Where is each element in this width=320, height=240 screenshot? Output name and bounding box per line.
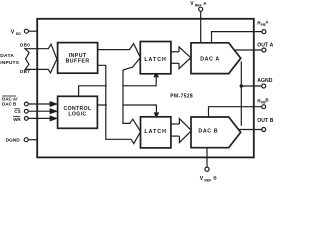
latch A box — [140, 42, 171, 74]
wire latch B to dac B body — [171, 123, 179, 125]
label VDD — [11, 30, 22, 36]
svg-text:LOGIC: LOGIC — [68, 111, 86, 117]
wire bus input-buffer to latch A — [97, 49, 130, 51]
label DAC A / DAC B — [2, 96, 18, 107]
wire arrowhead into latch B (solid) — [155, 113, 159, 117]
wire bus outer boundary to latch B — [97, 65, 141, 143]
terminal circle agnd — [262, 84, 266, 88]
svg-text:DATA: DATA — [0, 53, 14, 59]
wire agnd tap — [241, 85, 261, 87]
vdd terminal circle — [24, 29, 28, 33]
terminal circle out B — [262, 128, 266, 132]
svg-text:REF: REF — [204, 178, 211, 182]
latch B box — [141, 117, 171, 148]
svg-text:OUT A: OUT A — [257, 42, 273, 48]
label RFB A — [257, 19, 269, 26]
wire rfb A — [212, 32, 262, 43]
svg-text:A: A — [203, 1, 207, 6]
wire rfb B — [209, 107, 262, 117]
wire WR input — [28, 117, 50, 119]
svg-text:AGND: AGND — [257, 78, 273, 84]
svg-text:DAC A: DAC A — [200, 56, 220, 62]
dac A shape — [191, 43, 241, 74]
wire dac select input — [28, 103, 50, 105]
terminal circle rfb B — [262, 105, 266, 109]
svg-text:V: V — [200, 176, 204, 182]
label RFB B — [257, 97, 268, 104]
svg-text:WR: WR — [13, 117, 21, 122]
terminal circle vref B — [205, 167, 209, 171]
svg-text:A: A — [265, 19, 269, 24]
svg-text:INPUTS: INPUTS — [0, 60, 19, 66]
svg-text:B: B — [213, 176, 217, 181]
label WR — [13, 117, 21, 122]
arrowhead latch A to dac A — [179, 47, 191, 69]
wire dgnd — [28, 139, 38, 141]
svg-text:LATCH: LATCH — [144, 57, 167, 63]
svg-text:DAC B: DAC B — [2, 102, 17, 107]
svg-text:PM-7528: PM-7528 — [170, 93, 193, 99]
label control logic — [64, 106, 92, 118]
wire vref A — [200, 11, 202, 43]
svg-text:LATCH: LATCH — [144, 129, 167, 135]
svg-text:REF: REF — [195, 4, 202, 8]
svg-text:V: V — [190, 1, 194, 7]
dac B shape — [191, 117, 241, 148]
wire agnd rail — [240, 61, 242, 126]
label input buffer — [66, 53, 90, 65]
data inputs bus arrow — [25, 44, 57, 73]
svg-text:DAC B: DAC B — [198, 129, 218, 135]
junction dot agnd — [240, 84, 243, 87]
vdd terminal wire — [28, 30, 38, 32]
terminal circle dgnd — [24, 138, 28, 142]
terminal circle rfb A — [262, 30, 266, 34]
label CS — [14, 109, 20, 114]
wire CS input — [28, 110, 50, 112]
terminal circle CS — [24, 109, 28, 113]
node bus occluder — [107, 66, 123, 139]
arrowhead dac select — [50, 102, 56, 106]
arrowhead latch B to dac B — [179, 119, 191, 143]
wire latch A input arrowhead — [123, 44, 140, 70]
wire out A — [235, 49, 262, 51]
wire control logic to latch B — [97, 105, 156, 114]
input buffer box — [58, 43, 98, 74]
control logic box — [58, 96, 98, 128]
terminal circle vref A — [199, 7, 203, 11]
arrowhead CS — [50, 109, 56, 113]
terminal circle dac select — [24, 102, 28, 106]
svg-text:DAC A/: DAC A/ — [2, 96, 18, 101]
svg-text:DGND: DGND — [6, 137, 21, 143]
svg-text:DD: DD — [16, 32, 22, 36]
terminal circle WR — [24, 117, 28, 121]
svg-text:OUT B: OUT B — [257, 118, 274, 124]
label VREF A — [190, 1, 207, 8]
wire arrowhead into latch A (solid) — [154, 73, 158, 76]
svg-text:CS: CS — [14, 109, 20, 114]
svg-text:DB7: DB7 — [20, 69, 30, 74]
svg-text:V: V — [11, 30, 15, 36]
svg-text:BUFFER: BUFFER — [66, 59, 90, 65]
wire control logic to latch A — [79, 76, 157, 96]
label VREF B — [200, 176, 218, 183]
wire vref B — [206, 148, 208, 167]
wire bus inner boundary to latch B — [123, 70, 141, 132]
svg-text:B: B — [265, 97, 268, 102]
terminal circle out A — [262, 48, 266, 52]
svg-text:DB0: DB0 — [20, 43, 30, 48]
arrowhead WR — [50, 116, 56, 120]
outer package box — [37, 19, 254, 158]
wire latch A to dac A body — [171, 51, 179, 53]
wire out B — [237, 129, 262, 131]
